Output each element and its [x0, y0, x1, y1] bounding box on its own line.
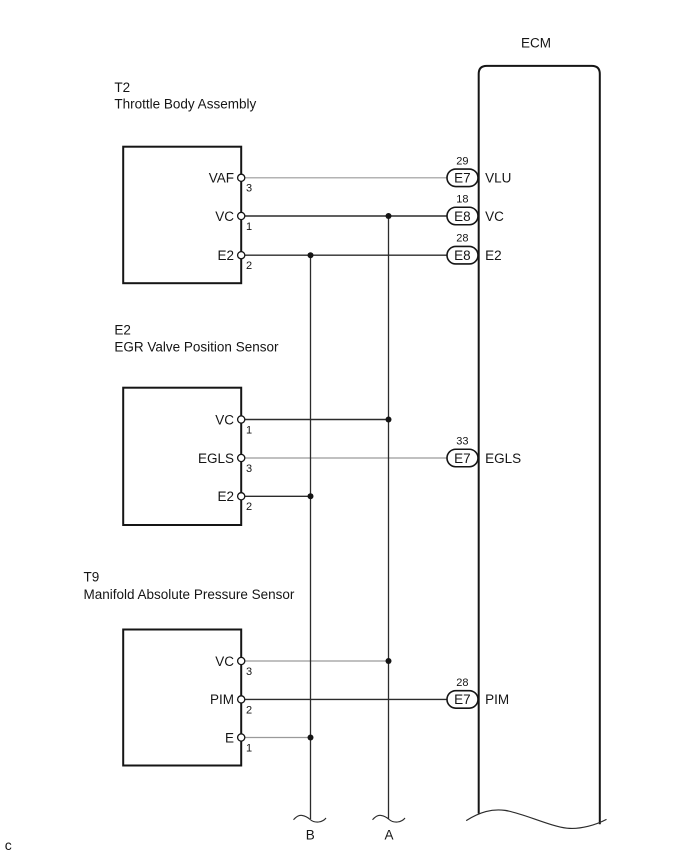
svg-text:VLU: VLU	[485, 171, 511, 186]
connector oval E7 pin 29	[447, 169, 478, 187]
wire bus A vertical	[388, 216, 390, 819]
svg-text:VAF: VAF	[209, 171, 234, 186]
svg-text:E2: E2	[114, 323, 131, 338]
pin T2-2 circle	[238, 252, 245, 259]
wire VC: T2 pin 1 to ECM E8-18	[241, 215, 447, 217]
svg-text:Manifold Absolute Pressure Sen: Manifold Absolute Pressure Sensor	[84, 587, 295, 602]
svg-text:1: 1	[246, 221, 252, 233]
svg-text:18: 18	[456, 194, 468, 206]
svg-text:VC: VC	[215, 412, 234, 427]
svg-text:c: c	[5, 837, 12, 853]
pin T9-3 circle	[238, 657, 245, 664]
break symbol on wire A	[373, 815, 406, 822]
svg-text:E7: E7	[454, 451, 471, 466]
pin E2-1 circle	[238, 416, 245, 423]
svg-text:T2: T2	[114, 80, 130, 95]
svg-text:3: 3	[246, 666, 252, 678]
wire VAF: T2 pin 3 to ECM E7-29	[241, 177, 447, 179]
connector oval E8 pin 28	[447, 246, 478, 264]
component T9 Manifold Absolute Pressure Sensor box	[123, 630, 241, 766]
junction on EGR VC wire at node A	[386, 417, 392, 423]
svg-text:B: B	[306, 828, 315, 843]
junction on wire E2 at node B	[308, 252, 314, 258]
pin T2-1 circle	[238, 212, 245, 219]
connector oval E7 pin 28	[447, 691, 478, 709]
svg-text:E: E	[225, 730, 234, 745]
svg-text:28: 28	[456, 233, 468, 245]
svg-text:VC: VC	[215, 654, 234, 669]
wire E: T9 pin 1 to node B	[241, 737, 310, 739]
component T2 Throttle Body Assembly box	[123, 147, 241, 284]
svg-text:2: 2	[246, 260, 252, 272]
connector oval E8 pin 18	[447, 207, 478, 225]
svg-text:E8: E8	[454, 209, 471, 224]
pin T9-2 circle	[238, 696, 245, 703]
junction on T9 E wire at node B	[308, 735, 314, 741]
svg-text:Throttle Body Assembly: Throttle Body Assembly	[114, 96, 256, 111]
svg-text:PIM: PIM	[210, 692, 234, 707]
pin T2-3 circle	[238, 174, 245, 181]
svg-text:1: 1	[246, 424, 252, 436]
svg-text:3: 3	[246, 183, 252, 195]
svg-text:T9: T9	[84, 570, 100, 585]
svg-text:E2: E2	[217, 248, 234, 263]
svg-text:3: 3	[246, 463, 252, 475]
svg-text:A: A	[384, 828, 393, 843]
wire EGLS: E2 sensor pin 3 to ECM E7-33	[241, 457, 447, 459]
svg-text:33: 33	[456, 436, 468, 448]
svg-text:28: 28	[456, 677, 468, 689]
wire bus B vertical	[310, 255, 312, 819]
svg-text:PIM: PIM	[485, 692, 509, 707]
wire VC: T9 pin 3 to node A	[241, 660, 388, 662]
svg-text:E7: E7	[454, 692, 471, 707]
connector oval E7 pin 33	[447, 449, 478, 467]
junction on EGR E2 wire at node B	[308, 493, 314, 499]
component E2 EGR Valve Position Sensor box	[123, 388, 241, 525]
pin T9-1 circle	[238, 734, 245, 741]
svg-text:VC: VC	[215, 209, 234, 224]
svg-text:EGR Valve Position Sensor: EGR Valve Position Sensor	[114, 339, 279, 354]
wire VC: E2 sensor pin 1 to node A	[241, 419, 388, 421]
junction on T9 VC wire at node A	[386, 658, 392, 664]
wire E2: E2 sensor pin 2 to node B	[241, 495, 310, 497]
svg-text:E2: E2	[217, 489, 234, 504]
svg-text:2: 2	[246, 704, 252, 716]
svg-text:EGLS: EGLS	[485, 451, 521, 466]
junction on wire VC at node A	[386, 213, 392, 219]
ECM bottom break wave	[466, 810, 606, 829]
svg-text:E7: E7	[454, 171, 471, 186]
wire E2: T2 pin 2 to ECM E8-28	[241, 254, 447, 256]
pin E2-3 circle	[238, 454, 245, 461]
svg-text:VC: VC	[485, 209, 504, 224]
svg-text:EGLS: EGLS	[198, 451, 234, 466]
svg-text:E8: E8	[454, 248, 471, 263]
break symbol on wire B	[294, 815, 327, 822]
svg-text:2: 2	[246, 501, 252, 513]
pin E2-2 circle	[238, 493, 245, 500]
svg-text:E2: E2	[485, 248, 502, 263]
svg-text:29: 29	[456, 155, 468, 167]
wire PIM: T9 pin 2 to ECM E7-28	[241, 698, 447, 700]
ECM box U1	[479, 66, 600, 824]
svg-text:ECM: ECM	[521, 36, 551, 51]
svg-text:1: 1	[246, 742, 252, 754]
